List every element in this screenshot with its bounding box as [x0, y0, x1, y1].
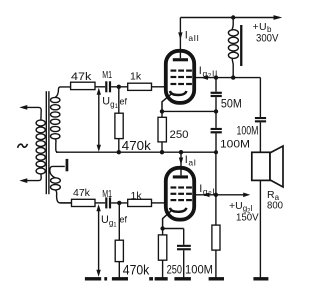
tube V1 anode — [173, 175, 188, 178]
node rail screen column — [214, 150, 218, 154]
transformer T1 primary winding — [36, 120, 45, 174]
resistor 250 lower — [158, 229, 166, 279]
svg-text:250: 250 — [167, 263, 183, 277]
svg-text:800: 800 — [267, 199, 283, 211]
wire 47k to M1 upper — [95, 86, 105, 88]
tube V2 grids — [171, 70, 192, 86]
svg-text:M1: M1 — [102, 69, 112, 81]
tube V1 cathode — [163, 208, 187, 227]
resistor 250 upper — [158, 111, 166, 152]
svg-text:300V: 300V — [256, 33, 279, 45]
middle chassis rail — [56, 151, 216, 153]
node choke top — [231, 15, 235, 19]
wire speaker to ground — [259, 180, 261, 278]
resistor 470k upper — [115, 87, 123, 152]
svg-text:47k: 47k — [73, 187, 91, 199]
node 50M 100M junction — [214, 109, 218, 113]
transformer T1 secondary winding bottom — [51, 178, 72, 203]
wire cathode to 50M junction — [162, 110, 216, 112]
resistor 470k lower — [115, 203, 123, 279]
tube V2 envelope — [166, 51, 194, 103]
wire M1 to 1k lower — [111, 202, 128, 204]
svg-text:47k: 47k — [71, 71, 92, 83]
choke L1 core — [240, 25, 242, 66]
capacitor 100M upper — [211, 111, 222, 152]
svg-text:Ug1: Ug1 — [102, 95, 118, 110]
wire 47k to M1 lower — [95, 202, 105, 204]
tube V1 envelope — [166, 168, 194, 220]
resistor 1k upper — [128, 83, 152, 90]
AC source tilde symbol — [18, 144, 28, 148]
node tube II cathode — [160, 109, 164, 113]
transformer T1 core — [46, 91, 49, 194]
resistor 47k upper — [71, 82, 95, 89]
measurement arrow Ug1ef upper — [97, 88, 101, 152]
svg-text:M1: M1 — [102, 188, 112, 200]
wire 1k to tube II grid — [152, 86, 166, 88]
tube V2 cathode — [162, 91, 186, 110]
node 470k to rail — [117, 150, 121, 154]
capacitor 50M — [211, 78, 222, 112]
node lower grid junction — [117, 201, 121, 205]
wire 100M to speaker — [259, 122, 261, 152]
node screen 50M — [214, 75, 218, 79]
svg-text:ef: ef — [120, 214, 128, 224]
svg-text:100M: 100M — [237, 125, 259, 137]
center tap chassis ground bar — [50, 159, 69, 178]
wire 1k to tube I grid — [152, 202, 166, 204]
node screen I — [214, 193, 218, 197]
supply arrow +Ub — [274, 15, 283, 20]
wire secondary to 47k lower — [60, 202, 72, 204]
current arrow Ig2I — [202, 193, 209, 198]
wire M1 to 1k upper — [111, 86, 128, 88]
capacitor 100M output — [255, 117, 266, 122]
measurement arrow Ug1ef lower — [96, 204, 100, 277]
svg-text:50M: 50M — [221, 98, 242, 110]
input terminal arrow bottom — [19, 174, 41, 183]
current arrow IaII — [178, 32, 182, 39]
current arrow Ig2II — [201, 75, 208, 80]
supply arrow +Ug2I — [243, 193, 250, 198]
svg-text:100M: 100M — [220, 139, 250, 151]
svg-text:1k: 1k — [130, 71, 142, 83]
svg-text:100M: 100M — [185, 263, 213, 277]
svg-text:470k: 470k — [122, 138, 152, 153]
node rail 250 — [160, 150, 164, 154]
resistor 1k lower — [128, 199, 152, 206]
chassis ground dashes — [85, 277, 269, 280]
tube V1 grids — [171, 186, 192, 201]
tube V2 anode lead — [179, 18, 181, 59]
svg-text:Ug1: Ug1 — [101, 214, 117, 229]
svg-text:1k: 1k — [131, 190, 143, 202]
tube V2 anode — [173, 58, 188, 61]
wire rail to screen node — [215, 152, 217, 195]
wire plate feed down right side — [259, 78, 261, 117]
resistor 47k lower — [72, 199, 96, 206]
svg-text:IaI: IaI — [185, 154, 197, 168]
svg-text:ef: ef — [120, 97, 128, 107]
svg-text:470k: 470k — [123, 263, 150, 278]
node rail anode I — [179, 150, 183, 154]
capacitor M1 upper — [105, 81, 111, 92]
node upper grid junction — [117, 85, 121, 89]
svg-text:IaII: IaII — [185, 29, 200, 43]
svg-text:150V: 150V — [236, 212, 259, 224]
capacitor 100M lower — [177, 245, 191, 279]
current arrow IaI — [179, 158, 183, 165]
choke L1 winding — [228, 18, 238, 78]
wire rail to tube I anode — [180, 152, 182, 175]
node choke bottom — [231, 75, 235, 79]
resistor screen bleeder — [212, 195, 220, 279]
node tube I cathode — [160, 226, 164, 230]
wire tube I cathode network — [163, 229, 184, 245]
loudspeaker Ra — [252, 146, 283, 187]
wire screen tube I — [196, 194, 244, 196]
wire screen tube II — [196, 77, 260, 79]
transformer T1 secondary winding top — [51, 87, 71, 152]
wire +Ub top rail — [180, 17, 274, 19]
capacitor M1 lower — [105, 197, 111, 208]
svg-text:250: 250 — [170, 129, 189, 141]
input terminal arrow top — [19, 105, 41, 120]
